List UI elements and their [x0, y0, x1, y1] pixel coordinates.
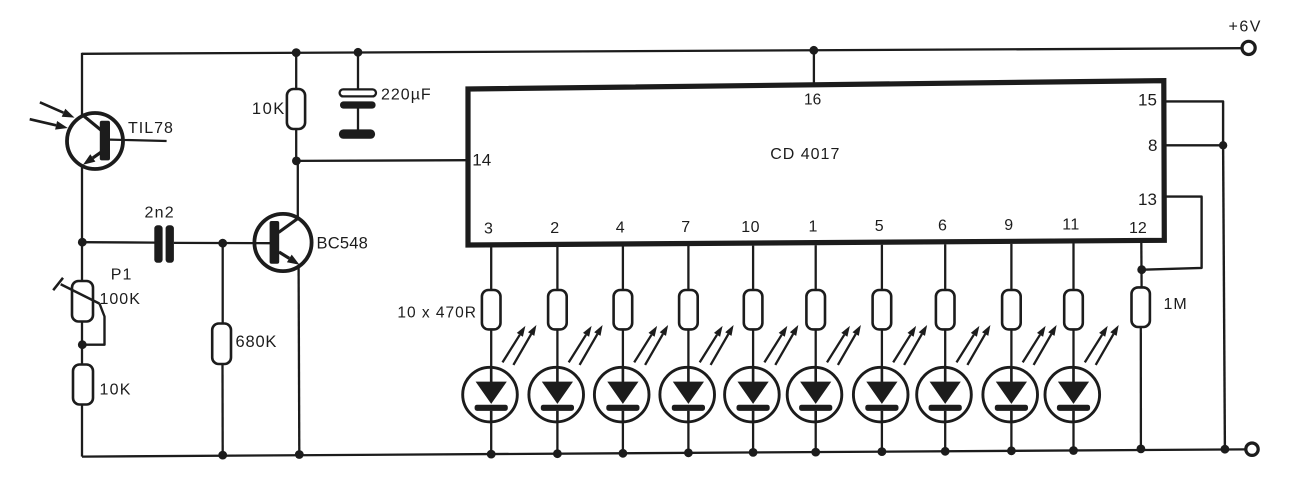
light arrows D3 [634, 325, 668, 365]
svg-text:10 x 470R: 10 x 470R [397, 305, 477, 322]
LED D5 [725, 367, 780, 422]
label 1M [1164, 296, 1188, 313]
wire IC pin 11 down to R10 [1072, 243, 1074, 291]
wire R6 to LED D6 [815, 329, 817, 370]
svg-text:15: 15 [1138, 91, 1157, 110]
wire R9 to LED D9 [1010, 329, 1012, 370]
junction D5 column / ground rail [749, 448, 758, 457]
wire IC pin 4 down to R3 [622, 247, 624, 292]
svg-text:12: 12 [1129, 220, 1147, 237]
junction D10 column / ground rail [1069, 446, 1078, 455]
capacitor 2n2 [154, 225, 174, 262]
wire IC pin 9 down to R9 [1010, 244, 1012, 291]
svg-text:10K: 10K [100, 381, 132, 398]
label pin 4 [616, 220, 625, 237]
wire LED D2 to ground rail [556, 421, 558, 454]
wire Q2 emitter to ground rail [297, 266, 300, 455]
junction D8 column / ground rail [941, 447, 950, 456]
label pin 13 [1138, 190, 1157, 209]
wire LED D5 to ground rail [752, 421, 754, 453]
light arrow 2 into Q1 [30, 119, 68, 129]
wire IC pin 10 down to R5 [752, 246, 754, 291]
wire LED D1 to ground rail [490, 421, 492, 455]
wire bottom ground rail [82, 449, 1245, 456]
label pin 12 [1129, 220, 1147, 237]
wire base line right segment (cap to Q2 base) [174, 242, 270, 245]
svg-text:6: 6 [938, 218, 947, 235]
resistor R7 470R [873, 290, 892, 329]
light arrows D2 [569, 325, 603, 365]
wire left column (Q1 emitter down to base line) [81, 166, 83, 244]
wire junction down to R-680K [222, 243, 224, 324]
transistor Q1 TIL78 phototransistor [67, 113, 123, 169]
potentiometer P1 100K [53, 278, 104, 345]
wire R-10K-lower to ground rail [81, 405, 83, 457]
label TIL78 [128, 120, 174, 137]
svg-text:3: 3 [484, 221, 493, 238]
terminal +6V supply [1242, 41, 1255, 54]
svg-text:13: 13 [1138, 190, 1157, 209]
junction D4 column / ground rail [684, 448, 693, 457]
wire top rail to C-220uF [357, 52, 359, 90]
svg-text:2: 2 [550, 220, 559, 237]
IC U1 CD4017 body [468, 81, 1164, 245]
wire R-1M to ground rail [1140, 327, 1142, 449]
wire left column top (rail to Q1 collector) [81, 53, 83, 117]
light arrows D6 [827, 325, 861, 365]
LED D9 [983, 367, 1038, 422]
svg-text:11: 11 [1062, 217, 1080, 234]
wire top rail to R-10K-upper [295, 53, 297, 90]
wire IC pin 1 down to R6 [815, 245, 817, 291]
label pin 1 [808, 218, 817, 235]
junction pin8 / pin15 bus [1219, 141, 1227, 149]
resistor R5 470R [744, 290, 763, 329]
label 220uF [381, 86, 432, 103]
resistor R2 470R [548, 290, 567, 329]
wire pin 8 to right bus [1165, 144, 1224, 146]
wire LED D6 to ground rail [815, 421, 817, 453]
junction D7 column / ground rail [878, 447, 887, 456]
wire Q1 base lead (open, to the right) [110, 140, 167, 141]
light arrows D8 [957, 325, 991, 365]
wire pin 13 loop to pin 12 column [1142, 197, 1202, 270]
LED D1 [463, 367, 518, 422]
wire +6V top supply rail [82, 48, 1242, 54]
LED D4 [660, 367, 715, 422]
wire P1 to R-10K-lower [81, 322, 83, 366]
label P1 [111, 266, 133, 283]
label 2n2 [145, 204, 175, 221]
wire R-680K to ground rail [221, 364, 223, 455]
svg-text:10: 10 [741, 219, 760, 236]
junction left column / base wire [78, 238, 87, 247]
resistor 680K [212, 324, 231, 365]
svg-text:14: 14 [472, 151, 491, 170]
svg-text:10K: 10K [252, 100, 286, 118]
junction D9 column / ground rail [1007, 446, 1016, 455]
junction pin12 / pin13 loop [1137, 265, 1146, 274]
junction top rail / 10K upper [292, 48, 301, 57]
wire R3 to LED D3 [622, 329, 624, 370]
label pin 3 [484, 221, 493, 238]
label pin 2 [550, 220, 559, 237]
junction right bus / ground rail [1221, 445, 1230, 454]
label 680K [236, 333, 278, 351]
junction P1 wiper / bottom [78, 340, 87, 349]
junction D2 column / ground rail [553, 449, 562, 458]
svg-text:1: 1 [808, 218, 817, 235]
junction base line / 680K [218, 239, 227, 248]
svg-text:4: 4 [616, 220, 625, 237]
label BC548 [317, 235, 368, 253]
resistor R1 470R [482, 290, 501, 329]
label pin 10 [741, 219, 760, 236]
light arrows D4 [700, 325, 734, 365]
wire right bus down to ground rail [1223, 145, 1225, 449]
wire LED D10 to ground rail [1072, 421, 1074, 451]
svg-text:5: 5 [875, 218, 884, 235]
label pin 6 [938, 218, 947, 235]
wire LED D4 to ground rail [687, 421, 689, 453]
label pin 11 [1062, 217, 1080, 234]
junction D3 column / ground rail [619, 449, 628, 458]
light arrows D1 [503, 325, 537, 365]
label pin 7 [681, 219, 690, 236]
wire IC pin 2 down to R2 [556, 247, 558, 291]
resistor R8 470R [936, 290, 955, 329]
wire pin 15 loop [1165, 101, 1224, 145]
junction D6 column / ground rail [811, 448, 820, 457]
label 10 x 470R [397, 305, 477, 322]
label pin 15 [1138, 91, 1157, 110]
wire base line left segment [82, 241, 155, 244]
svg-text:680K: 680K [236, 333, 278, 351]
resistor R6 470R [806, 290, 825, 329]
transistor Q2 BC548 [254, 214, 311, 271]
light arrows D7 [893, 325, 927, 365]
wire left column (down to P1) [81, 242, 83, 282]
wire LED D7 to ground rail [881, 421, 883, 452]
label 100K [100, 291, 141, 308]
resistor 1M [1132, 287, 1150, 327]
resistor 10K lower (left column) [73, 365, 93, 405]
light arrow 1 into Q1 [40, 102, 75, 117]
svg-text:BC548: BC548 [317, 235, 368, 253]
svg-text:TIL78: TIL78 [128, 120, 174, 137]
wire LED D9 to ground rail [1010, 421, 1012, 451]
wire LED D8 to ground rail [944, 421, 946, 452]
wire IC pin 6 down to R8 [944, 244, 946, 291]
wire R1 to LED D1 [490, 329, 492, 370]
label pin 8 [1148, 136, 1157, 155]
label +6V [1229, 19, 1262, 36]
light arrows D5 [764, 325, 798, 365]
label CD 4017 [770, 146, 840, 163]
wire R2 to LED D2 [556, 329, 558, 370]
junction Q2 emitter / ground rail [295, 450, 304, 459]
label pin 16 [804, 92, 821, 109]
LED D6 [787, 367, 842, 422]
wire R10 to LED D10 [1072, 329, 1074, 370]
wire IC pin 5 down to R7 [881, 245, 883, 291]
svg-text:1M: 1M [1164, 296, 1188, 313]
LED D8 [917, 367, 972, 422]
junction top rail / 220uF [354, 48, 363, 57]
label 10K upper [252, 100, 286, 118]
svg-text:220µF: 220µF [381, 86, 432, 103]
resistor 10K upper [287, 89, 305, 129]
wire R-10K-upper to node A [295, 129, 297, 161]
label pin 9 [1004, 217, 1013, 234]
label pin 5 [875, 218, 884, 235]
svg-text:7: 7 [681, 219, 690, 236]
label 10K lower [100, 381, 132, 398]
junction pin16 / top rail [809, 46, 818, 55]
svg-text:100K: 100K [100, 291, 141, 308]
svg-text:+6V: +6V [1229, 19, 1262, 36]
terminal bottom-right output [1246, 443, 1258, 455]
wire IC pin 7 down to R4 [687, 246, 689, 291]
svg-text:16: 16 [804, 92, 821, 109]
light arrows D9 [1023, 325, 1057, 365]
resistor R10 470R [1064, 290, 1083, 329]
wire IC pin 3 down to R1 [490, 247, 492, 291]
wire LED D3 to ground rail [622, 421, 624, 454]
light arrows D10 [1085, 325, 1119, 365]
wire R7 to LED D7 [881, 329, 883, 370]
svg-text:P1: P1 [111, 266, 133, 283]
junction 1M column / ground rail [1137, 445, 1146, 454]
capacitor 220uF electrolytic [339, 89, 376, 138]
label pin 14 [472, 151, 491, 170]
LED D2 [529, 367, 584, 422]
svg-text:9: 9 [1004, 217, 1013, 234]
wire pin 12 down [1140, 240, 1143, 288]
LED D7 [853, 367, 908, 422]
wire node A to IC pin 14 [296, 159, 465, 162]
junction node A (10K / Q2 collector / pin14 wire) [292, 157, 301, 166]
junction 680K column / ground rail [218, 451, 227, 460]
resistor R9 470R [1002, 290, 1021, 329]
resistor R3 470R [614, 290, 633, 329]
wire R5 to LED D5 [752, 329, 754, 370]
junction D1 column / ground rail [487, 450, 496, 459]
svg-text:CD 4017: CD 4017 [770, 146, 840, 163]
wire Q2 collector up to node A [297, 161, 299, 219]
wire R4 to LED D4 [687, 329, 689, 370]
resistor R4 470R [679, 290, 698, 329]
wire pin 16 to top rail [813, 50, 815, 85]
wire R8 to LED D8 [944, 329, 946, 370]
svg-text:2n2: 2n2 [145, 204, 175, 221]
LED D3 [594, 367, 649, 422]
svg-text:8: 8 [1148, 136, 1157, 155]
LED D10 [1045, 367, 1100, 422]
